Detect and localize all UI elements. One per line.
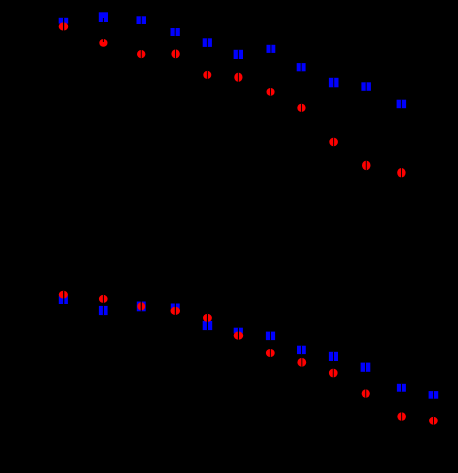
atom group B1: O (red) over NH (blue), lower-left <box>59 291 68 304</box>
atom group B6: N (blue) over O (red), overlapped <box>234 328 244 340</box>
atom group T6: NH (blue) and C=O (red) <box>234 50 243 82</box>
atom group T2: NH (blue) and C=O (red) <box>99 12 108 47</box>
atom group T10: NH (blue) and C=O (red) <box>361 82 371 170</box>
atom group T8: NH (blue) and C=O (red) <box>297 63 306 112</box>
wire / bond skeleton (black bonds, invisible on black background) <box>20 20 433 420</box>
atom group T4: NH (blue) and C=O (red) <box>171 28 180 58</box>
atom group T1: N (blue) over O (red), top-left <box>59 18 68 31</box>
atom group B2: C=O (red) over NH (blue) <box>99 295 108 315</box>
atom group T5: NH (blue) and C=O (red) <box>203 38 212 79</box>
atom group B4: N (blue) over O (red), overlapped <box>171 304 181 316</box>
atom group B5: C=O (red) over NH (blue) <box>203 314 213 330</box>
atom group T3: NH (blue) and C=O (red) <box>137 16 147 58</box>
atom group T11: NH (blue) and C=O (red), right edge <box>397 100 407 178</box>
atom group T9: NH (blue) and C=O (red) <box>329 78 339 147</box>
atom group B12: NH (blue) and C=O (red), bottom-right <box>429 391 439 425</box>
atom group B9: NH (blue) and C=O (red) <box>329 352 338 378</box>
atom group B7: NH (blue) and C=O (red) <box>266 332 275 357</box>
atom group B8: NH (blue) and C=O (red) <box>297 346 306 367</box>
atom group B11: NH (blue) and C=O (red) <box>397 384 406 421</box>
atom group B3: overlapped N (blue) and O (red) <box>137 302 146 312</box>
atom group B10: NH (blue) and C=O (red) <box>361 363 371 398</box>
atom group T7: N (blue) and C=O (red) <box>267 45 276 96</box>
